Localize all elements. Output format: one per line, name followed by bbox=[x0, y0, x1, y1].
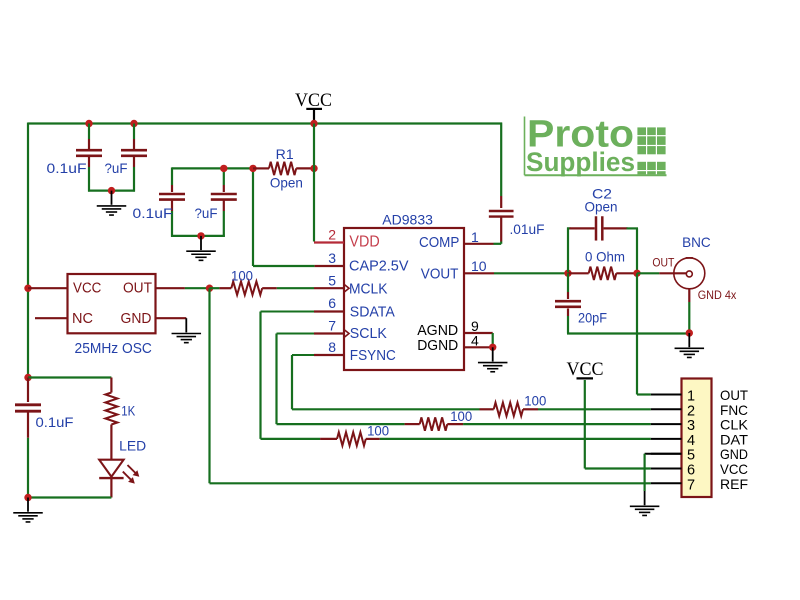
wire cap-pair2 bottom bbox=[171, 235, 225, 237]
connector J1 pin number 2 bbox=[687, 403, 695, 419]
osc pin VCC bbox=[73, 279, 101, 296]
ground BNC bbox=[675, 333, 705, 357]
connector J1 pin 6 stub bbox=[651, 468, 682, 470]
svg-text:?uF: ?uF bbox=[195, 206, 218, 221]
pin number 5 bbox=[328, 273, 336, 289]
junction R1 left bbox=[249, 165, 256, 172]
label 100 (MCLK) bbox=[231, 269, 253, 284]
connector J2 BNC bbox=[659, 258, 705, 289]
pin 10 VOUT stub bbox=[464, 272, 494, 274]
svg-text:1: 1 bbox=[687, 389, 695, 405]
svg-text:BNC: BNC bbox=[682, 234, 711, 250]
ground cap-pair1 bbox=[97, 191, 127, 215]
capacitor 0.1uF (second pair) bbox=[159, 167, 185, 237]
connector J1 pin number 3 bbox=[687, 418, 695, 434]
wire CLK to connector bbox=[463, 423, 651, 425]
connector J1 pin 2 stub bbox=[651, 408, 682, 410]
pin name VOUT bbox=[421, 265, 459, 282]
pin number 2 bbox=[328, 227, 336, 243]
wire DAT to connector bbox=[380, 438, 651, 440]
svg-text:GND: GND bbox=[720, 446, 748, 462]
junction MCLK net bbox=[206, 285, 213, 292]
wire cap-pair1 bottom bbox=[88, 190, 135, 192]
svg-text:CAP2.5V: CAP2.5V bbox=[349, 258, 409, 275]
svg-text:6: 6 bbox=[687, 463, 695, 479]
connector J1 pin number 6 bbox=[687, 463, 695, 479]
capacitor C2 Open bbox=[567, 216, 638, 272]
connector J1 pin name OUT bbox=[720, 387, 748, 403]
osc VCC stub bbox=[28, 287, 68, 289]
junction BNC gnd bbox=[686, 329, 693, 336]
connector J1 body bbox=[682, 379, 712, 498]
osc OUT stub bbox=[156, 287, 210, 289]
junction ground bottom-left bbox=[24, 494, 31, 501]
svg-text:7: 7 bbox=[328, 318, 336, 334]
svg-text:100: 100 bbox=[231, 269, 253, 284]
wire left vertical rail bbox=[27, 123, 29, 378]
svg-text:DGND: DGND bbox=[417, 337, 458, 354]
svg-text:VCC: VCC bbox=[567, 360, 604, 380]
svg-text:R1: R1 bbox=[276, 147, 294, 162]
junction cap-pair2 bottom bbox=[197, 232, 204, 239]
wire R1 left node vertical bbox=[253, 168, 315, 266]
ground DGND bbox=[478, 347, 508, 371]
capacitor 0.1uF (bottom-left) bbox=[15, 378, 41, 499]
svg-text:100: 100 bbox=[524, 393, 546, 408]
pin name FSYNC bbox=[350, 347, 396, 364]
connector J1 pin 7 stub bbox=[651, 482, 682, 484]
svg-text:20pF: 20pF bbox=[578, 311, 607, 326]
label ?uF (second pair) bbox=[195, 206, 218, 221]
label C2 value Open bbox=[585, 200, 618, 215]
capacitor ?uF (top-left) bbox=[121, 124, 147, 192]
connector J1 pin number 7 bbox=[687, 477, 695, 493]
label GND 4x bbox=[698, 290, 737, 302]
pin name MCLK bbox=[349, 280, 388, 297]
connector J1 pin number 5 bbox=[687, 448, 695, 464]
connector J1 pin name VCC bbox=[720, 461, 748, 477]
pin 7 SCLK stub bbox=[277, 330, 350, 338]
label AD9833 bbox=[382, 211, 433, 227]
wire VCC to connector pin6 bbox=[585, 380, 651, 469]
svg-text:Supplies: Supplies bbox=[526, 147, 635, 177]
connector J1 pin 4 stub bbox=[651, 438, 682, 440]
label R1 bbox=[276, 147, 294, 162]
svg-text:0.1uF: 0.1uF bbox=[133, 206, 173, 221]
wire OUT to connector pin1 bbox=[637, 273, 651, 394]
connector J1 pin name GND bbox=[720, 446, 748, 462]
wire SDATA route bbox=[261, 312, 321, 439]
wire VCC top rail bbox=[28, 122, 502, 124]
pin 6 SDATA stub bbox=[261, 311, 345, 313]
power VCC symbol (bottom) bbox=[567, 360, 604, 380]
oscillator X1 25MHz body bbox=[68, 274, 156, 333]
pin 1 COMP stub bbox=[464, 243, 494, 245]
svg-text:DAT: DAT bbox=[720, 431, 748, 447]
wire VOUT to node bbox=[494, 272, 568, 274]
svg-text:REF: REF bbox=[720, 476, 748, 492]
capacitor 20pF bbox=[555, 273, 581, 333]
pin number 8 bbox=[328, 339, 336, 355]
connector J1 pin name CLK bbox=[720, 417, 749, 433]
svg-text:OUT: OUT bbox=[720, 387, 748, 403]
label .01uF bbox=[510, 222, 545, 237]
wire cap-pair2 top bbox=[172, 167, 253, 169]
svg-text:FSYNC: FSYNC bbox=[350, 347, 396, 364]
resistor 100 (FNC) bbox=[480, 403, 539, 416]
svg-text:SCLK: SCLK bbox=[350, 325, 387, 342]
resistor 0 Ohm bbox=[568, 267, 637, 280]
pin number 4 bbox=[471, 332, 479, 348]
svg-text:?uF: ?uF bbox=[105, 161, 128, 176]
svg-text:0 Ohm: 0 Ohm bbox=[585, 250, 625, 265]
label 20pF bbox=[578, 311, 607, 326]
pin 4 DGND stub bbox=[464, 346, 493, 348]
svg-text:5: 5 bbox=[687, 448, 695, 464]
svg-text:Open: Open bbox=[270, 176, 303, 191]
svg-text:2: 2 bbox=[687, 403, 695, 419]
pin number 3 bbox=[328, 250, 336, 266]
label 100 (FNC) bbox=[524, 393, 546, 408]
label LED bbox=[119, 438, 146, 453]
svg-text:OUT: OUT bbox=[123, 279, 152, 296]
svg-text:4: 4 bbox=[471, 332, 479, 348]
pin name SCLK bbox=[350, 325, 387, 342]
junction left rail bottom bbox=[24, 374, 31, 381]
svg-text:MCLK: MCLK bbox=[349, 280, 388, 297]
pin 8 FSYNC stub bbox=[292, 354, 344, 356]
wire to 1K bbox=[28, 376, 111, 378]
svg-text:0.1uF: 0.1uF bbox=[36, 415, 74, 430]
label 0.1uF (bottom-left) bbox=[36, 415, 74, 430]
junction VOUT left bbox=[564, 270, 571, 277]
label 0.1uF (top-left) bbox=[47, 161, 87, 176]
connector J1 pin name FNC bbox=[720, 402, 748, 418]
logo ProtoSupplies bbox=[525, 114, 667, 178]
resistor 100 (CLK) bbox=[405, 417, 464, 430]
pin number 7 bbox=[328, 318, 336, 334]
svg-text:7: 7 bbox=[687, 477, 695, 493]
label 100 (CLK) bbox=[450, 409, 472, 424]
wire LED bottom bbox=[28, 496, 111, 498]
connector J1 pin number 4 bbox=[687, 433, 695, 449]
connector J1 pin 3 stub bbox=[651, 423, 682, 425]
ground connector bbox=[630, 491, 660, 515]
label R1 value Open bbox=[270, 176, 303, 191]
op-amp/IC U1 AD9833 body bbox=[344, 228, 464, 370]
svg-text:3: 3 bbox=[687, 418, 695, 434]
ground OSC bbox=[172, 318, 202, 342]
connector J1 pin name DAT bbox=[720, 431, 748, 447]
svg-text:CLK: CLK bbox=[720, 417, 749, 433]
pin 9 AGND stub bbox=[464, 332, 493, 334]
svg-text:8: 8 bbox=[328, 339, 336, 355]
pin name AGND bbox=[417, 322, 458, 339]
junction VOUT right bbox=[633, 270, 640, 277]
svg-text:6: 6 bbox=[328, 295, 336, 311]
pin number 10 bbox=[471, 258, 487, 274]
svg-text:VCC: VCC bbox=[720, 461, 748, 477]
svg-text:Open: Open bbox=[585, 200, 618, 215]
pin name COMP bbox=[419, 234, 459, 251]
svg-text:1: 1 bbox=[471, 229, 479, 245]
pin number 1 bbox=[471, 229, 479, 245]
svg-text:10: 10 bbox=[471, 258, 487, 274]
wire VDD vertical bbox=[313, 124, 315, 242]
svg-text:OUT: OUT bbox=[652, 258, 674, 270]
svg-text:NC: NC bbox=[72, 310, 93, 327]
svg-text:2: 2 bbox=[328, 227, 336, 243]
wire GND pin5 down bbox=[643, 454, 645, 491]
junction R1 right bbox=[310, 165, 317, 172]
pin name CAP2.5V bbox=[349, 258, 409, 275]
wire FNC to connector bbox=[538, 408, 651, 410]
pin name SDATA bbox=[350, 303, 395, 320]
svg-text:3: 3 bbox=[328, 250, 336, 266]
junction top rail / C2cap bbox=[130, 120, 137, 127]
label BNC bbox=[682, 234, 711, 250]
resistor R1 bbox=[253, 162, 313, 175]
wire SCLK route bbox=[277, 334, 405, 425]
label OUT (BNC) bbox=[652, 258, 674, 270]
label 100 (DAT) bbox=[367, 424, 389, 439]
label 25MHz OSC bbox=[75, 341, 152, 357]
junction cap-pair1 bottom bbox=[108, 187, 115, 194]
capacitor 0.1uF (top-left) bbox=[76, 124, 102, 192]
capacitor ?uF (second pair) bbox=[211, 168, 237, 237]
label 0.1uF (second pair) bbox=[133, 206, 173, 221]
resistor 100 (DAT) bbox=[320, 432, 380, 445]
svg-text:25MHz OSC: 25MHz OSC bbox=[75, 341, 152, 357]
svg-text:GND 4x: GND 4x bbox=[698, 290, 737, 302]
wire 20pF to gnd bbox=[567, 332, 689, 334]
osc NC stub bbox=[35, 317, 68, 319]
pin number 9 bbox=[471, 318, 479, 334]
connector J1 pin 1 stub bbox=[651, 394, 682, 396]
junction top rail / VCC bbox=[310, 120, 317, 127]
wire MCLK/REF vertical bbox=[210, 288, 651, 483]
ground cap-pair2 bbox=[186, 236, 216, 260]
svg-text:1K: 1K bbox=[121, 404, 136, 419]
label 1K bbox=[121, 404, 136, 419]
svg-text:VOUT: VOUT bbox=[421, 265, 459, 282]
svg-text:COMP: COMP bbox=[419, 234, 459, 251]
svg-text:4: 4 bbox=[687, 433, 695, 449]
junction top rail / C1 bbox=[85, 120, 92, 127]
capacitor .01uF bbox=[489, 123, 514, 244]
pin name VDD bbox=[349, 234, 379, 251]
connector J1 pin 5 stub bbox=[651, 453, 682, 455]
svg-text:.01uF: .01uF bbox=[510, 222, 545, 237]
junction DGND bbox=[489, 344, 496, 351]
osc GND stub bbox=[156, 317, 187, 319]
pin 5 MCLK stub bbox=[314, 284, 349, 292]
power VCC symbol (top) bbox=[295, 91, 332, 124]
svg-text:FNC: FNC bbox=[720, 402, 748, 418]
svg-text:VDD: VDD bbox=[349, 234, 379, 251]
pin 2 VDD stub bbox=[314, 241, 344, 243]
svg-text:LED: LED bbox=[119, 438, 146, 453]
osc pin OUT bbox=[123, 279, 152, 296]
osc pin NC bbox=[72, 310, 93, 327]
svg-text:0.1uF: 0.1uF bbox=[47, 161, 87, 176]
pin number 6 bbox=[328, 295, 336, 311]
resistor 100 (MCLK) bbox=[210, 282, 315, 295]
svg-text:AD9833: AD9833 bbox=[382, 211, 433, 227]
svg-text:SDATA: SDATA bbox=[350, 303, 395, 320]
label C2 bbox=[592, 187, 612, 202]
wire BNC shell to gnd bbox=[688, 289, 690, 334]
svg-text:GND: GND bbox=[121, 310, 152, 327]
svg-text:100: 100 bbox=[450, 409, 472, 424]
pin 3 CAP2.5V stub bbox=[315, 265, 344, 267]
svg-text:VCC: VCC bbox=[73, 279, 101, 296]
label ?uF (top-left) bbox=[105, 161, 128, 176]
svg-text:100: 100 bbox=[367, 424, 389, 439]
wire AGND to DGND bbox=[492, 333, 494, 347]
pin name DGND bbox=[417, 337, 458, 354]
osc pin GND bbox=[121, 310, 152, 327]
connector J1 pin name REF bbox=[720, 476, 748, 492]
junction left rail / OSC VCC bbox=[24, 285, 31, 292]
LED D1 bbox=[99, 460, 139, 498]
label 0 Ohm bbox=[585, 250, 625, 265]
connector J1 pin number 1 bbox=[687, 389, 695, 405]
wire connector GND pin5 bbox=[645, 453, 682, 455]
ground bottom-left bbox=[13, 498, 43, 522]
junction cap-pair2 top bbox=[220, 165, 227, 172]
wire FSYNC route bbox=[292, 355, 480, 409]
wire BNC to OUT node bbox=[637, 272, 659, 274]
svg-text:5: 5 bbox=[328, 273, 336, 289]
resistor 1K bbox=[105, 378, 117, 460]
